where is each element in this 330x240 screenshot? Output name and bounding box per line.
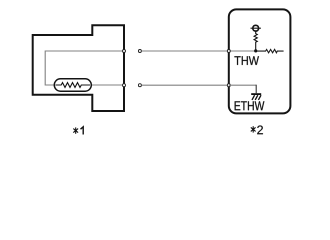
harness connector terminal 1 (138, 50, 141, 53)
wire ETHW terminal to ground (229, 84, 256, 86)
wire: thermistor to pin2 (91, 84, 125, 86)
wire ETHW harness (142, 84, 229, 86)
ECM terminal THW (227, 50, 230, 53)
ECM terminal ETHW (227, 84, 230, 87)
pull-up resistor (254, 31, 257, 51)
ECM box *2 (229, 9, 291, 113)
power supply symbol (251, 25, 261, 31)
sensor pin terminal 1 (123, 50, 126, 53)
series resistor to ADC (257, 49, 284, 52)
label ETHW (235, 101, 265, 110)
label *2 (251, 125, 263, 134)
wire THW harness (142, 50, 229, 52)
label *1 (73, 127, 83, 135)
label THW (234, 56, 259, 65)
junction node (254, 49, 257, 52)
sensor pin terminal 2 (123, 84, 126, 87)
wire: sensor internal loop pin1 to thermistor (45, 51, 124, 85)
harness connector terminal 2 (138, 84, 141, 87)
connector *1 (ECT sensor housing) (33, 25, 124, 111)
internal wire THW terminal to node (229, 50, 256, 52)
ground symbol ECM internal (251, 94, 261, 100)
thermistor sensing element (54, 79, 91, 91)
